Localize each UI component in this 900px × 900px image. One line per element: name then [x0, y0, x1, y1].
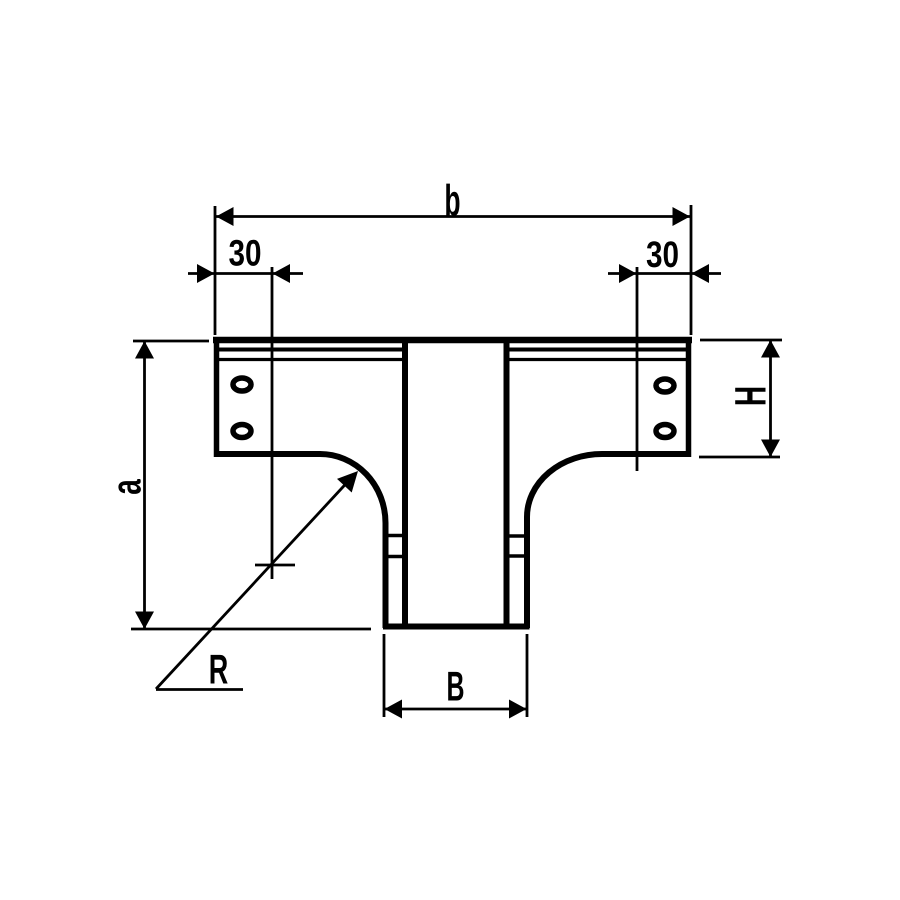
right flange hole upper: [656, 379, 674, 392]
right flange hole lower: [656, 425, 674, 438]
dimension B extension line left: [383, 634, 386, 717]
dimension b line: [215, 215, 691, 218]
part left flange bottom with fillet into stem outer left: [214, 454, 386, 628]
dimension b arrow left: [216, 207, 234, 226]
flange thin rim line upper right: [507, 348, 689, 352]
left flange hole upper: [233, 378, 251, 391]
part right flange right edge: [686, 337, 692, 457]
dimension b extension line right: [690, 205, 693, 335]
dimension H line: [769, 340, 772, 457]
dimension b arrow right: [673, 207, 691, 226]
dimension 30 right line with tails: [608, 272, 721, 275]
stem left latch tick lower: [387, 555, 403, 559]
part right flange bottom with fillet into stem outer right: [527, 454, 691, 628]
dimension b extension line left: [214, 206, 217, 335]
flange thin rim line lower right: [507, 358, 689, 361]
flange thin rim line upper left: [216, 348, 404, 352]
label a rotated: [118, 479, 140, 494]
dimension a arrow up: [135, 341, 154, 359]
dimension H arrow up: [761, 340, 780, 358]
dimension 30 right extension line: [636, 267, 639, 471]
dimension H top extension line: [700, 339, 782, 342]
dimension 30 left line with tails: [188, 272, 303, 275]
part stem bottom edge: [383, 624, 530, 630]
radius R leader landing line: [156, 688, 243, 691]
label H rotated: [735, 388, 765, 405]
label 30 left: [229, 240, 260, 266]
part left flange left edge: [214, 337, 220, 457]
label 30 right: [647, 241, 678, 267]
dimension a bottom extension long line: [131, 628, 371, 631]
radius center cross tick: [255, 564, 295, 567]
part stem inner wall right: [504, 340, 510, 625]
stem left latch tick upper: [387, 534, 403, 538]
dimension 30 right arrow outer-left: [619, 264, 637, 283]
dimension 30 left arrow outer-right: [273, 264, 291, 283]
label b: [446, 184, 459, 216]
label B: [448, 672, 463, 701]
dimension 30 right arrow outer-right: [692, 264, 710, 283]
dimension a arrow down: [135, 612, 154, 630]
dimension a top extension line: [133, 340, 209, 343]
left flange hole lower: [233, 425, 251, 438]
dimension H bottom extension line: [699, 456, 780, 459]
dimension a line: [143, 341, 146, 629]
stem right latch tick lower: [509, 554, 525, 558]
dimension H arrow down: [761, 440, 780, 458]
radius R leader diagonal line: [156, 482, 348, 690]
radius R leader arrowhead: [337, 471, 358, 493]
part stem inner wall left: [402, 340, 408, 625]
label R: [211, 655, 228, 684]
dimension B arrow left: [385, 700, 403, 719]
stem right latch tick upper: [509, 534, 525, 538]
flange thin rim line lower left: [216, 358, 404, 361]
part top edge: [213, 337, 692, 344]
dimension B line: [384, 708, 527, 711]
dimension B arrow right: [509, 700, 527, 719]
dimension B extension line right: [526, 634, 529, 717]
dimension 30 left arrow outer-left: [197, 264, 215, 283]
dimension 30 left extension line down to radius center: [271, 267, 274, 579]
